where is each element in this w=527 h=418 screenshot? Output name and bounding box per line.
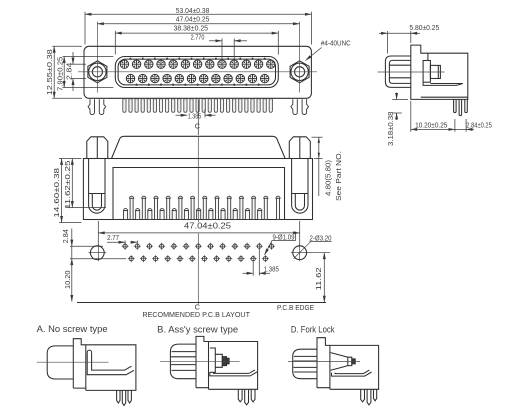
shell from rear xyxy=(112,136,286,158)
dim 2.77 pcb hole pitch xyxy=(107,241,137,245)
svg-text:2.84: 2.84 xyxy=(65,63,74,81)
dim 1.385 below comb xyxy=(176,109,216,118)
body rectangle xyxy=(83,159,312,220)
hex jack screw left xyxy=(88,61,107,83)
B insulator bracket xyxy=(210,372,257,376)
dim 5.80±0.25 xyxy=(379,31,420,54)
pcb drill holes (25 small) xyxy=(122,243,275,263)
centerline middle view xyxy=(197,136,199,222)
left dims 14.60 / 11.62 xyxy=(59,159,106,223)
centerline symbol below front view xyxy=(197,100,199,135)
svg-text:12.55±0.38: 12.55±0.38 xyxy=(45,49,54,95)
B centerline xyxy=(160,360,240,362)
svg-text:38.38±0.25: 38.38±0.25 xyxy=(174,24,209,33)
hex standoff right (rear) xyxy=(289,137,310,159)
insulator cavity lines xyxy=(423,82,463,85)
svg-text:1.385: 1.385 xyxy=(264,265,279,274)
hex jack screw right xyxy=(290,61,309,83)
pcb pins xyxy=(454,99,457,112)
A flange and body xyxy=(73,339,136,391)
svg-text:D. Fork Lock: D. Fork Lock xyxy=(291,324,335,334)
centerlines front view xyxy=(78,22,317,93)
left dims: 12.55±0.38 / 7.90±0.25 / 2.84 xyxy=(52,46,113,98)
svg-text:14.60±0.38: 14.60±0.38 xyxy=(52,168,61,218)
D fork lock funnel xyxy=(331,353,348,371)
dim 10.20±0.25 xyxy=(411,101,474,132)
svg-text:11.62±0.25: 11.62±0.25 xyxy=(63,161,72,210)
B shell with hex ridges xyxy=(170,344,196,379)
A pins xyxy=(117,390,120,403)
side view centerline xyxy=(377,71,444,73)
svg-text:See Part NO.: See Part NO. xyxy=(334,151,343,201)
rear view of connector xyxy=(83,136,312,219)
flange and body outline xyxy=(411,45,468,99)
A shell xyxy=(47,346,73,379)
dim 4.80(5.80) right side xyxy=(312,137,323,196)
svg-text:A. No screw type: A. No screw type xyxy=(37,324,108,334)
svg-text:7.90±0.25: 7.90±0.25 xyxy=(55,57,64,91)
D pins xyxy=(361,389,365,402)
D shell with hex ridges xyxy=(293,349,317,379)
dim 53.04±0.38 xyxy=(85,12,311,45)
svg-text:11.62: 11.62 xyxy=(314,267,323,290)
B screw assembled xyxy=(210,348,216,372)
screw barrel right xyxy=(292,159,308,214)
svg-text:2.84: 2.84 xyxy=(61,229,70,243)
dim 47.04±0.25 xyxy=(97,23,299,25)
dim 38.38±0.25 xyxy=(115,31,278,55)
left dims 2.84 / 10.20 xyxy=(70,229,126,302)
flange plate xyxy=(84,46,311,98)
svg-text:4.80(5.80): 4.80(5.80) xyxy=(324,160,333,196)
B flange and body xyxy=(196,336,258,389)
svg-text:47.04±0.25: 47.04±0.25 xyxy=(184,222,232,231)
pin number specks xyxy=(130,58,266,86)
pcb centerline xyxy=(197,234,199,305)
svg-text:1.385: 1.385 xyxy=(188,111,202,120)
dim 11.62 right xyxy=(323,253,325,303)
mounting hole left 3.20 xyxy=(88,244,106,261)
A centerline xyxy=(37,361,109,363)
pcb edge line xyxy=(77,302,326,304)
board lock forks below flange xyxy=(88,99,308,114)
svg-text:RECOMMENDED P.C.B LAYOUT: RECOMMENDED P.C.B LAYOUT xyxy=(142,310,250,319)
svg-text:C: C xyxy=(195,121,200,130)
contacts: top row 13, bottom row 12 xyxy=(120,60,275,83)
jack screw standoff side profile xyxy=(385,56,410,87)
svg-text:3.18±0.38: 3.18±0.38 xyxy=(386,112,395,147)
D-shell outer xyxy=(115,57,278,88)
screw plate and head inside xyxy=(427,53,429,60)
D flange and body xyxy=(317,338,379,390)
A insulator bracket xyxy=(87,350,91,352)
D-shell insert xyxy=(118,59,275,85)
svg-text:#4-40UNC: #4-40UNC xyxy=(321,39,351,48)
rear pin combs xyxy=(124,196,281,219)
svg-text:5.80±0.25: 5.80±0.25 xyxy=(409,23,439,32)
dim 47.04±0.25 below rear view xyxy=(98,221,299,246)
svg-text:2.77: 2.77 xyxy=(107,233,119,242)
svg-text:B. Ass'y screw type: B. Ass'y screw type xyxy=(157,324,238,334)
side view (right angle profile) xyxy=(385,45,467,116)
svg-text:9-Ø1.09: 9-Ø1.09 xyxy=(273,233,295,242)
front view: DB-25 female connector, mating face xyxy=(84,46,311,98)
svg-text:47.04±0.25: 47.04±0.25 xyxy=(176,14,210,23)
D centerline xyxy=(288,361,360,363)
svg-text:10.20±0.25: 10.20±0.25 xyxy=(415,121,447,130)
screw barrel left xyxy=(89,159,105,214)
dim 2.770 pin pitch xyxy=(209,39,247,61)
dim 3.18±0.38 xyxy=(392,93,408,121)
D insulator bracket xyxy=(332,372,372,376)
svg-text:P.C.B EDGE: P.C.B EDGE xyxy=(277,303,314,312)
insulator inner rectangle xyxy=(113,168,285,220)
mounting hole right 3.20 xyxy=(291,242,330,262)
solder pin comb below flange xyxy=(123,99,273,113)
hex standoff left (rear) xyxy=(87,137,108,159)
svg-text:2.84±0.25: 2.84±0.25 xyxy=(466,121,492,130)
dim 1.385 pcb xyxy=(243,250,271,276)
svg-text:10.20: 10.20 xyxy=(63,271,72,290)
svg-text:2.770: 2.770 xyxy=(191,32,205,41)
svg-text:2-Ø3.20: 2-Ø3.20 xyxy=(310,233,332,242)
B pins xyxy=(238,389,242,402)
